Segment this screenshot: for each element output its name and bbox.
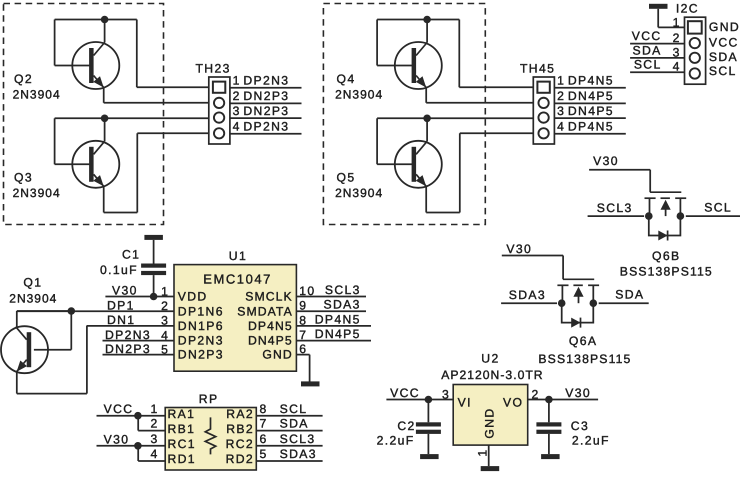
- svg-text:4: 4: [151, 447, 159, 461]
- ground symbol at U1 pin 6: [301, 381, 320, 386]
- svg-text:C1: C1: [122, 248, 140, 262]
- ground symbol below C2: [420, 454, 439, 459]
- svg-text:DN2P3: DN2P3: [243, 89, 289, 103]
- wire U1 pin 9 net stub: [296, 310, 366, 312]
- wire U2 VO (pin 2) to V30: [528, 399, 598, 401]
- wire TH23 pin 2 net stub: [230, 102, 302, 104]
- svg-text:2.2uF: 2.2uF: [377, 434, 415, 448]
- svg-text:2: 2: [161, 299, 169, 313]
- svg-text:8: 8: [260, 402, 268, 416]
- junction dot VCC-C2: [425, 396, 433, 404]
- resistor network RP body: [165, 408, 256, 471]
- wire U2 GND (pin 1) to ground: [488, 445, 490, 466]
- svg-text:6: 6: [260, 432, 268, 446]
- svg-text:3: 3: [161, 314, 169, 328]
- svg-text:DP2N3: DP2N3: [105, 328, 151, 342]
- label pin 4 DP4N5: [557, 120, 614, 134]
- junction dot V30-C3: [545, 396, 553, 404]
- wire Q4 collector-base tie (top): [377, 20, 459, 66]
- wire Q4 collector to TH45 pin 1: [459, 20, 533, 88]
- wire SDA to I2C pin 3: [630, 57, 684, 59]
- dashed box DFN-package outline around Q2, Q3: [4, 4, 164, 225]
- svg-text:DP4N5: DP4N5: [568, 120, 614, 134]
- svg-text:Q6B: Q6B: [652, 249, 680, 263]
- svg-text:GND: GND: [262, 348, 292, 362]
- ground symbol below C3: [541, 454, 560, 459]
- svg-text:RC1: RC1: [168, 437, 196, 451]
- transistor Q3 2N3904 (lower): [72, 141, 119, 188]
- svg-text:V30: V30: [506, 242, 532, 256]
- wire U1 pin 4: [103, 340, 175, 342]
- wire RP pin 5 net stub: [256, 460, 322, 462]
- svg-text:4: 4: [557, 120, 565, 134]
- svg-text:DN2P3: DN2P3: [243, 104, 289, 118]
- svg-text:2: 2: [532, 387, 540, 401]
- svg-text:V30: V30: [565, 386, 591, 400]
- svg-text:SDA3: SDA3: [280, 447, 317, 461]
- svg-text:7: 7: [260, 417, 268, 431]
- svg-text:1: 1: [233, 74, 241, 88]
- wire U1 pin 5: [103, 354, 175, 356]
- svg-text:DN1: DN1: [107, 313, 135, 327]
- capacitor C2 2.2uF: [416, 422, 441, 426]
- wire Q3 collector-base tie to TH23 pin 3: [55, 118, 209, 164]
- svg-text:DP2N3: DP2N3: [243, 120, 289, 134]
- label pin 3 DN4P5: [557, 104, 614, 118]
- wire U1 pin 7 net stub: [296, 340, 371, 342]
- wire U1 pin 6 to ground: [296, 355, 309, 382]
- junction dot Q5 collector-base: [423, 115, 431, 123]
- wire Q2 collector to TH23 pin 1: [137, 20, 209, 88]
- svg-text:2: 2: [151, 417, 159, 431]
- svg-text:5: 5: [161, 342, 169, 356]
- label pin 2 DN4P5: [557, 89, 614, 103]
- label pin 4 DP2N3: [233, 120, 290, 134]
- svg-text:SMDATA: SMDATA: [237, 304, 293, 318]
- svg-text:4: 4: [233, 120, 241, 134]
- wire Q2 emitter to TH23 pin 2: [104, 88, 209, 103]
- mosfet Q6A BSS138PS115 level shifter: [557, 279, 599, 327]
- svg-text:2N3904: 2N3904: [335, 186, 383, 200]
- svg-text:V30: V30: [112, 284, 138, 298]
- svg-text:DP4N5: DP4N5: [568, 74, 614, 88]
- svg-text:BSS138PS115: BSS138PS115: [538, 352, 631, 366]
- capacitor C1 0.1uF: [141, 264, 166, 268]
- wire C3 bottom to ground: [548, 434, 550, 454]
- svg-text:DN4P5: DN4P5: [568, 104, 614, 118]
- svg-text:V30: V30: [593, 154, 619, 168]
- junction dot DP1/Q1: [68, 307, 76, 315]
- svg-text:2: 2: [233, 89, 241, 103]
- svg-text:RD1: RD1: [168, 452, 196, 466]
- svg-text:Q6A: Q6A: [569, 334, 597, 348]
- transistor Q4 2N3904 (upper): [395, 42, 442, 89]
- junction dot C1-VDD: [150, 293, 158, 301]
- svg-text:TH45: TH45: [520, 62, 555, 76]
- svg-text:3: 3: [233, 104, 241, 118]
- svg-text:RC2: RC2: [226, 437, 254, 451]
- svg-text:SCL: SCL: [704, 201, 732, 215]
- svg-text:3: 3: [557, 104, 565, 118]
- wire TH23 pin 4 net stub: [230, 133, 302, 135]
- connector I2C 4-pin header: [685, 17, 706, 84]
- svg-text:SDA3: SDA3: [324, 298, 361, 312]
- svg-text:VDD: VDD: [178, 290, 208, 304]
- svg-text:SMCLK: SMCLK: [245, 290, 293, 304]
- resistor zigzag symbol inside RP: [205, 417, 215, 454]
- wire C2 bottom to ground: [427, 434, 429, 454]
- svg-text:Q4: Q4: [337, 72, 356, 86]
- svg-text:1: 1: [475, 448, 489, 456]
- wire U1 pin 1: [105, 296, 174, 298]
- dashed box DFN-package outline around Q4, Q5: [323, 4, 485, 225]
- wire SDA3 - SDA channel (Q6A): [501, 302, 649, 304]
- svg-text:U1: U1: [229, 249, 247, 263]
- mosfet Q6B BSS138PS115 level shifter: [645, 192, 687, 240]
- wire VCC to I2C pin 2: [630, 43, 684, 45]
- wire C3 top: [548, 400, 550, 423]
- wire TH45 pin 2 net stub: [554, 102, 625, 104]
- svg-text:DP2N3: DP2N3: [243, 74, 289, 88]
- label pin 1 DP4N5: [557, 74, 614, 88]
- wire ground to C1: [153, 240, 155, 264]
- wire Q1 emitter to DN1 wire: [17, 326, 87, 394]
- svg-text:5: 5: [260, 447, 268, 461]
- svg-text:VO: VO: [503, 396, 523, 410]
- svg-text:DP2N3: DP2N3: [178, 334, 224, 348]
- svg-text:SDA: SDA: [280, 417, 309, 431]
- svg-text:3: 3: [442, 387, 450, 401]
- svg-text:V30: V30: [104, 432, 130, 446]
- svg-text:1: 1: [151, 402, 159, 416]
- wire Q4 emitter to TH45 pin 2: [426, 88, 533, 103]
- svg-text:EMC1047: EMC1047: [203, 272, 272, 287]
- wire Q2 collector-base tie (top): [55, 20, 137, 66]
- svg-text:2N3904: 2N3904: [9, 291, 57, 305]
- svg-text:VCC: VCC: [104, 402, 134, 416]
- wire V30 to RP pins 3,4: [97, 446, 166, 461]
- junction dot V30: [134, 442, 142, 450]
- wire RP pin 6 net stub: [256, 445, 322, 447]
- svg-text:3: 3: [151, 432, 159, 446]
- wire SCL3 - SCL channel (Q6B): [588, 215, 740, 217]
- junction dot VCC: [134, 412, 142, 420]
- svg-text:2N3904: 2N3904: [335, 88, 383, 102]
- wire C2 top: [427, 400, 429, 423]
- svg-text:SCL: SCL: [709, 64, 737, 78]
- ground symbol above C1: [144, 235, 163, 240]
- wire C1 to V30/VDD rail: [153, 275, 155, 296]
- wire TH45 pin 4 net stub: [554, 133, 625, 135]
- label pin 1 DP2N3: [233, 74, 290, 88]
- svg-text:SCL3: SCL3: [597, 201, 633, 215]
- wire VCC to RP pins 1,2: [97, 416, 166, 431]
- svg-text:VCC: VCC: [390, 386, 420, 400]
- capacitor C3 2.2uF: [536, 422, 561, 426]
- transistor Q5 2N3904 (lower): [395, 141, 442, 188]
- svg-text:2.2uF: 2.2uF: [572, 434, 610, 448]
- svg-text:4: 4: [161, 328, 169, 342]
- svg-text:C2: C2: [397, 419, 415, 433]
- junction dot Q2 collector-base: [101, 16, 109, 24]
- label pin 2 DN2P3: [233, 89, 290, 103]
- wire V30 to Q6B gate: [589, 170, 650, 193]
- svg-text:BSS138PS115: BSS138PS115: [620, 265, 713, 279]
- wire TH23 pin 3 net stub: [230, 117, 302, 119]
- svg-text:VCC: VCC: [632, 29, 662, 43]
- svg-text:1: 1: [557, 74, 565, 88]
- svg-text:VCC: VCC: [709, 36, 739, 50]
- svg-text:1: 1: [161, 284, 169, 298]
- ground symbol at U2 pin 1: [481, 466, 500, 471]
- wire VCC to U2 VI (pin 3): [386, 399, 453, 401]
- svg-text:2N3904: 2N3904: [13, 186, 61, 200]
- svg-text:RB1: RB1: [168, 422, 196, 436]
- svg-text:Q1: Q1: [23, 276, 42, 290]
- svg-text:GND: GND: [709, 20, 740, 34]
- svg-text:RD2: RD2: [226, 452, 254, 466]
- svg-text:TH23: TH23: [196, 62, 231, 76]
- svg-text:DN2P3: DN2P3: [178, 348, 224, 362]
- svg-text:U2: U2: [481, 352, 499, 366]
- wire I2C pin 1 to ground: [658, 9, 684, 28]
- svg-text:DN2P3: DN2P3: [105, 342, 151, 356]
- svg-text:DP4N5: DP4N5: [315, 312, 361, 326]
- svg-text:RA1: RA1: [168, 407, 196, 421]
- svg-text:RA2: RA2: [226, 407, 254, 421]
- wire SCL to I2C pin 4: [630, 71, 684, 73]
- ic U1 EMC1047 body: [174, 265, 296, 372]
- wire TH23 pin 1 net stub: [230, 87, 302, 89]
- wire RP pin 8 net stub: [256, 415, 322, 417]
- wire Q3 emitter to TH23 pin 4: [104, 133, 209, 212]
- wire V30 to Q6A gate: [502, 256, 563, 280]
- svg-text:Q2: Q2: [14, 72, 33, 86]
- svg-text:DN4P5: DN4P5: [248, 334, 293, 348]
- wire RP pin 7 net stub: [256, 430, 322, 432]
- svg-text:DN1P6: DN1P6: [178, 319, 224, 333]
- svg-text:C3: C3: [571, 419, 589, 433]
- wire Q5 emitter to TH45 pin 4: [426, 133, 533, 212]
- wire Q1 collector to DP1 wire: [17, 311, 72, 327]
- label pin 3 DN2P3: [233, 104, 290, 118]
- junction dot Q4 collector-base: [423, 16, 431, 24]
- svg-text:RB2: RB2: [226, 422, 254, 436]
- svg-text:AP2120N-3.0TR: AP2120N-3.0TR: [441, 368, 543, 382]
- svg-text:Q5: Q5: [337, 171, 356, 185]
- svg-text:DP4N5: DP4N5: [248, 319, 293, 333]
- svg-text:1: 1: [673, 16, 681, 30]
- svg-text:0.1uF: 0.1uF: [100, 263, 138, 277]
- svg-text:DP1N6: DP1N6: [178, 304, 224, 318]
- transistor Q1 2N3904 (remote sensor, mirrored): [1, 326, 48, 373]
- svg-text:SDA: SDA: [632, 43, 661, 57]
- svg-text:GND: GND: [483, 407, 497, 438]
- wire TH45 pin 3 net stub: [554, 117, 625, 119]
- svg-text:SCL3: SCL3: [325, 283, 361, 297]
- wire Q1 base to DP1 node: [34, 311, 71, 350]
- junction dot Q3 collector-base: [101, 115, 109, 123]
- transistor Q2 2N3904 (upper): [72, 42, 119, 89]
- wire Q5 collector-base tie to TH45 pin 3: [377, 118, 533, 164]
- svg-text:SDA3: SDA3: [509, 288, 546, 302]
- svg-text:SDA: SDA: [615, 288, 644, 302]
- svg-text:DP1: DP1: [107, 298, 135, 312]
- svg-text:DN4P5: DN4P5: [568, 89, 614, 103]
- svg-text:Q3: Q3: [14, 171, 33, 185]
- wire U1 pin 2: [17, 310, 174, 312]
- svg-text:RP: RP: [199, 392, 219, 406]
- svg-text:SCL: SCL: [634, 58, 662, 72]
- svg-text:SCL3: SCL3: [280, 432, 316, 446]
- wire U1 pin 3: [87, 325, 174, 327]
- svg-text:2: 2: [557, 89, 565, 103]
- connector TH45 4-pin header: [533, 77, 554, 144]
- ic U2 AP2120N-3.0TR body: [453, 385, 528, 446]
- wire U1 pin 10 net stub: [296, 296, 366, 298]
- svg-text:DN4P5: DN4P5: [315, 327, 361, 341]
- svg-text:SCL: SCL: [280, 402, 308, 416]
- svg-text:2N3904: 2N3904: [13, 88, 61, 102]
- connector TH23 4-pin header: [209, 77, 230, 144]
- svg-text:VI: VI: [458, 396, 472, 410]
- ground symbol at I2C pin 1: [649, 4, 668, 9]
- wire U1 pin 8 net stub: [296, 325, 371, 327]
- svg-text:I2C: I2C: [676, 2, 699, 16]
- wire TH45 pin 1 net stub: [554, 87, 625, 89]
- svg-text:SDA: SDA: [709, 50, 738, 64]
